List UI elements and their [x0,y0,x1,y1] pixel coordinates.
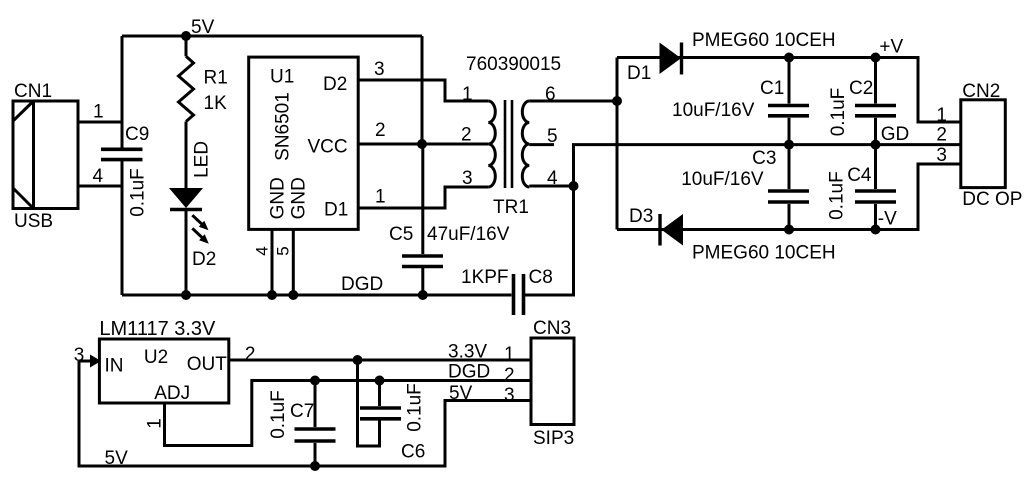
node C7 top dot [310,376,320,386]
svg-text:3: 3 [504,385,515,406]
node pin6 junction dot [612,96,622,106]
svg-text:0.1uF: 0.1uF [827,171,848,220]
transformer TR1 secondary winding [522,101,529,187]
svg-text:C9: C9 [125,124,149,145]
capacitor C8 plates [512,274,516,315]
svg-text:D2: D2 [323,74,347,95]
svg-text:5V: 5V [105,448,129,469]
svg-text:-V: -V [878,208,897,229]
LED D2 [169,188,203,208]
svg-text:D2: D2 [192,249,216,270]
svg-text:TR1: TR1 [493,197,529,218]
wire +V rail [617,58,960,123]
svg-text:PMEG60 10CEH: PMEG60 10CEH [692,30,836,51]
svg-text:3.3V: 3.3V [448,342,487,363]
wire U1 VCC to transformer pin2 [358,143,488,146]
wire U1 GND pin 4 stub [271,229,274,295]
wire pin4 node down to C8 [525,186,574,295]
regulator U2 LM1117 box [99,339,228,403]
svg-text:C4: C4 [847,165,872,186]
node GD C4 dot [871,140,881,150]
wire DGD rail [122,294,512,297]
svg-text:1K: 1K [204,93,228,114]
wire 5V top rail [122,35,422,38]
svg-text:2: 2 [461,125,472,146]
node C5 bottom dot [418,290,428,300]
node GD C3 dot [784,140,794,150]
transformer TR1 core [504,100,507,188]
wire GD from pin4 node [574,145,961,186]
transformer TR1 primary winding [488,101,495,187]
wire transformer pin4 [529,185,573,188]
svg-text:GND: GND [289,177,310,219]
svg-text:GND: GND [268,177,289,219]
svg-text:4: 4 [547,168,558,189]
svg-text:DGD: DGD [341,274,383,295]
capacitor C1 [788,58,791,104]
connector CN1 USB body [13,101,78,209]
svg-text:4: 4 [253,246,272,255]
capacitor C2 [874,58,877,104]
wire ADJ to DGD [165,381,532,446]
svg-text:5V: 5V [449,383,473,404]
svg-text:0.1uF: 0.1uF [405,383,426,432]
capacitor C5 leads [421,144,424,254]
node C7 bottom dot [310,461,320,471]
svg-text:3: 3 [374,59,385,80]
connector CN3 box [531,338,574,425]
svg-text:3: 3 [462,168,473,189]
capacitor C7 [314,381,317,428]
svg-text:SN6501: SN6501 [273,92,294,161]
svg-text:ADJ: ADJ [154,383,190,404]
svg-text:D3: D3 [629,206,653,227]
LED arrow 1 [192,215,203,225]
wire U1 GND pin 5 stub [292,229,295,295]
svg-text:D1: D1 [627,63,651,84]
svg-text:47uF/16V: 47uF/16V [427,224,510,245]
svg-text:6: 6 [545,84,556,105]
svg-text:10uF/16V: 10uF/16V [681,169,764,190]
svg-text:4: 4 [93,166,104,187]
svg-text:1: 1 [936,105,947,126]
connector CN2 box [961,100,1006,188]
svg-text:C3: C3 [752,148,776,169]
svg-text:IN: IN [105,356,124,377]
svg-text:10uF/16V: 10uF/16V [672,100,755,121]
wire CN1 pin4 [78,185,122,188]
wire pin5 stub [529,143,554,146]
svg-text:CN3: CN3 [533,318,571,339]
diode D3 [662,214,684,246]
svg-text:0.1uF: 0.1uF [828,88,849,137]
svg-text:DGD: DGD [448,362,490,383]
op-amp U1 SN6501 box [249,57,359,229]
svg-text:CN2: CN2 [962,81,1000,102]
capacitor C5 plates [402,254,443,258]
svg-text:C5: C5 [389,224,413,245]
svg-text:VCC: VCC [308,137,348,158]
svg-text:5V: 5V [191,17,215,38]
wire transformer pin6 [529,100,617,103]
wire -V rail [617,164,960,230]
svg-text:GD: GD [881,124,910,145]
capacitor C3 [788,145,791,189]
svg-text:5: 5 [547,126,558,147]
svg-text:2: 2 [375,120,386,141]
diode D1 [660,43,682,75]
capacitor C4 [874,145,877,189]
svg-text:C8: C8 [529,267,553,288]
svg-text:3: 3 [936,145,947,166]
svg-text:D1: D1 [324,200,348,221]
wire R1 to LED [185,122,188,189]
wire U1 D1 to transformer pin3 [358,187,488,208]
node C2 top dot [871,53,881,63]
svg-text:3: 3 [74,345,85,366]
svg-text:1KPF: 1KPF [461,267,509,288]
node C1 top dot [784,53,794,63]
node GND pin5 dot [288,290,298,300]
svg-text:1: 1 [93,102,104,123]
wire CN1 pin1 [78,121,122,124]
node VCC junction dot [417,139,427,149]
node 5V junction dot [181,31,191,41]
node -V C4 dot [871,225,881,235]
svg-text:CN1: CN1 [14,81,52,102]
node C6 top dot [375,376,385,386]
wire U2 OUT 3.3V [229,359,531,362]
svg-text:1: 1 [462,84,473,105]
wire LED to DGD rail [185,211,188,295]
svg-text:1: 1 [375,187,386,208]
wire U1 D2 to transformer pin1 [358,80,488,101]
svg-text:2: 2 [504,365,515,386]
LED arrow 2 [192,228,203,238]
resistor R1 [179,56,194,121]
capacitor C6 leads [378,381,381,407]
svg-text:OUT: OUT [187,354,228,375]
node OUT dot [353,355,363,365]
svg-text:2: 2 [936,125,947,146]
svg-text:+V: +V [879,36,903,57]
capacitor C6 plates [360,406,401,410]
svg-text:LED: LED [192,141,213,178]
svg-text:SIP3: SIP3 [533,428,574,449]
wire 5V rail drop to VCC [421,36,424,144]
svg-text:U1: U1 [270,67,294,88]
wire D1 rail vertical [616,58,619,230]
svg-text:R1: R1 [204,68,228,89]
svg-text:1: 1 [145,418,166,429]
wire IN feed with arrow [79,360,91,363]
svg-text:C7: C7 [290,401,314,422]
arrow into IN [90,355,101,368]
svg-text:C1: C1 [760,78,784,99]
svg-text:DC OP: DC OP [962,189,1022,210]
svg-text:C6: C6 [401,442,425,463]
svg-text:C2: C2 [849,78,873,99]
svg-text:0.1uF: 0.1uF [268,390,289,439]
svg-text:1: 1 [504,344,515,365]
wire 5V dot to R1 [185,36,188,56]
svg-text:760390015: 760390015 [466,54,561,75]
node pin4 junction dot [569,181,579,191]
svg-text:5: 5 [274,246,293,255]
svg-text:LM1117 3.3V: LM1117 3.3V [99,318,216,340]
capacitor C9 plates [101,148,143,152]
svg-text:USB: USB [14,211,53,232]
node -V C3 dot [784,225,794,235]
svg-text:2: 2 [245,344,256,365]
svg-text:PMEG60 10CEH: PMEG60 10CEH [692,243,836,264]
wire 5V left rail (bottom) [79,361,531,466]
wire left rail from 5V to DGD [121,36,124,148]
node LED-DGD junction dot [181,290,191,300]
node GND pin4 dot [267,290,277,300]
svg-text:U2: U2 [144,347,168,368]
svg-text:0.1uF: 0.1uF [128,168,149,217]
